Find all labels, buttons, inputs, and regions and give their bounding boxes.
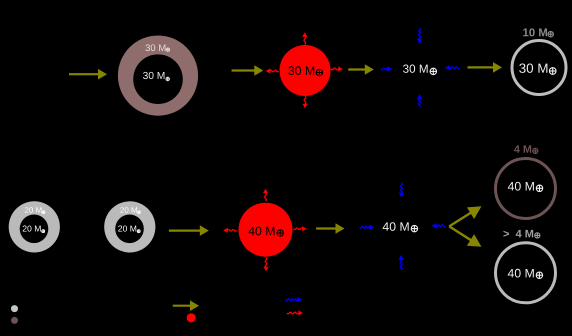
C2 outer label 10 Msun (523, 28, 547, 36)
N1 gravity arrow top (419, 28, 421, 39)
fork arrow upper branch (449, 213, 471, 227)
C1 wind arrow right (331, 68, 339, 70)
C3 wind arrow right (294, 228, 303, 230)
legend wind arrow (287, 312, 299, 314)
D2 core (20, 215, 49, 244)
arrow A5 (merger, into red star C3) (169, 230, 201, 232)
C1 wind arrow top (304, 36, 306, 44)
C3 wind arrow top (265, 193, 267, 201)
C1 wind arrow left (270, 70, 279, 72)
D2 ring label 20 Msun (25, 207, 42, 213)
N1 gravity arrow left (381, 68, 388, 70)
binary star D3 ring (20 Msun) (104, 201, 155, 252)
N2 gravity arrow right (436, 225, 445, 227)
C4 outer label 4 Msun (514, 145, 531, 152)
N2 gravity arrow left (360, 226, 371, 228)
C3 label 40 Msun (248, 227, 274, 236)
C1 wind arrow bottom (304, 96, 306, 104)
arrow A3 (evolution, into collapsing node N1) (348, 68, 366, 70)
legend rosy star dot (11, 317, 18, 324)
C2 label 30 Msun (519, 63, 547, 72)
arrow A1 (evolution, into 30 Msun giant) (69, 73, 100, 75)
D1 core label 30 Msun (143, 72, 164, 79)
D3 core label 20 Msun (118, 225, 136, 231)
C5 outer label over 4 Msun (503, 230, 533, 238)
N2 gravity arrow top (400, 183, 402, 193)
D1 ring label 30 Msun (145, 44, 165, 51)
binary star D2 ring (20 Msun) (9, 201, 60, 252)
N2 gravity arrow bottom (400, 259, 402, 270)
remnant C5 ring (over 4 Msun case) (496, 243, 556, 303)
red star C3 (40 Msun, losing mass) (239, 203, 293, 257)
arrow A2 (evolution, into red star C1) (232, 69, 256, 71)
C3 wind arrow left (227, 230, 236, 232)
C3 wind arrow bottom (265, 258, 267, 268)
C1 label 30 Msun (288, 66, 314, 75)
remnant C4 ring (4 Msun case) (496, 159, 556, 219)
C4 label 40 Msun (508, 182, 534, 191)
N1 gravity arrow bottom (419, 99, 421, 107)
arrow A6 (evolution, into collapsing node N2) (316, 227, 337, 229)
node N1 label 30 Msun (collapsing) (403, 65, 428, 73)
arrow A4 (collapse result, into black hole C2) (468, 66, 495, 68)
fork arrow lower branch (449, 226, 471, 240)
legend gravity arrow (286, 299, 298, 301)
giant star D1 ring (30 Msun envelope) (118, 36, 198, 116)
red star C1 (30 Msun, losing mass) (280, 45, 331, 96)
D2 core label 20 Msun (23, 225, 41, 231)
node N2 label 40 Msun (collapsing) (383, 222, 409, 231)
D3 core (115, 215, 144, 244)
C5 label 40 Msun (508, 269, 534, 278)
black hole C2 ring (512, 41, 566, 95)
N1 gravity arrow right (449, 67, 459, 69)
giant star D1 core (133, 54, 183, 104)
legend red star dot (187, 313, 196, 322)
legend gray star dot (11, 305, 18, 312)
legend evolution arrow (173, 305, 192, 307)
D3 ring label 20 Msun (120, 207, 137, 213)
